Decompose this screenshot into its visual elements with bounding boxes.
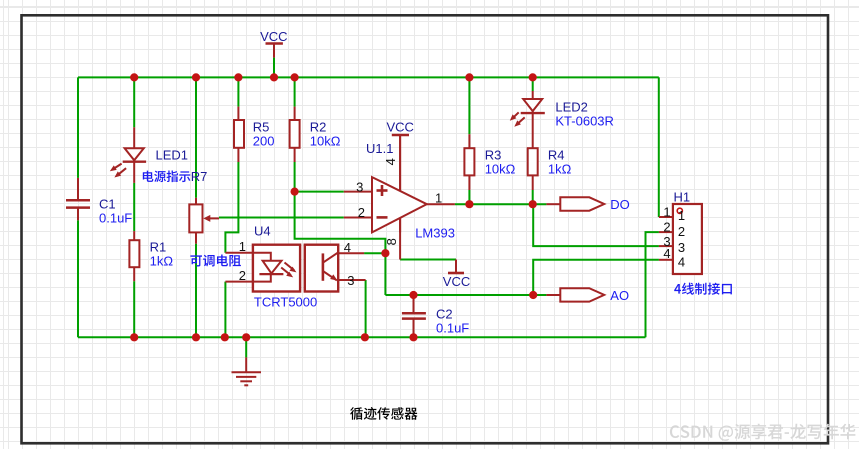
junction VCC rail at R2 — [291, 73, 299, 81]
junction node TCRT pin4 — [381, 249, 389, 257]
junction AO net at H1 branch — [529, 291, 537, 299]
svg-text:2: 2 — [678, 224, 685, 239]
wire R3 bottom — [468, 190, 470, 204]
wire R4 bottom — [532, 190, 534, 204]
svg-text:VCC: VCC — [260, 29, 287, 44]
comment ketiao dianzu — [190, 255, 241, 267]
wire bottom rail — [78, 336, 646, 338]
pin stub H1 pin1 — [659, 216, 673, 218]
watermark CSDN — [670, 424, 856, 441]
pin stub H1 pin4 — [659, 259, 673, 261]
LED LED1 — [110, 148, 188, 178]
svg-text:1: 1 — [435, 191, 442, 206]
power VCC mid bar (op-amp pin4) — [392, 134, 409, 137]
wire R7 bottom — [195, 244, 197, 338]
resistor R4 — [528, 148, 572, 177]
port DO — [560, 197, 630, 212]
ground symbol bars — [232, 372, 262, 385]
svg-text:VCC: VCC — [443, 274, 470, 289]
wire ground stem — [245, 337, 247, 357]
junction GND rail at ground symbol — [242, 333, 250, 341]
pin stub opamp pin8 — [399, 218, 401, 260]
svg-text:LM393: LM393 — [415, 225, 455, 240]
svg-text:1kΩ: 1kΩ — [548, 161, 572, 176]
pin stub ground — [245, 357, 247, 371]
wire TCRT pin3 down — [365, 280, 367, 337]
svg-text:H1: H1 — [674, 189, 691, 204]
svg-text:4: 4 — [383, 158, 398, 165]
pin stub C2 — [413, 296, 415, 313]
pin stub opamp pin2 — [344, 217, 372, 219]
svg-text:2: 2 — [358, 205, 365, 220]
junction VCC rail at R5 — [234, 73, 242, 81]
pin stub opamp pin4 — [399, 135, 401, 191]
svg-text:1: 1 — [678, 208, 685, 223]
comment 4xian jiekou — [674, 283, 732, 295]
svg-text:LED1: LED1 — [156, 148, 189, 163]
svg-text:3: 3 — [347, 273, 354, 288]
wire LED1 to R1 — [133, 183, 135, 231]
pin stub TCRT pin2 — [225, 281, 253, 283]
wire R2 bottom node — [295, 162, 386, 295]
svg-text:U1.1: U1.1 — [366, 141, 393, 156]
svg-text:R7: R7 — [191, 169, 208, 184]
wire node to opamp pin3 — [295, 191, 344, 193]
junction VCC rail at VCC stem — [270, 73, 278, 81]
svg-text:1kΩ: 1kΩ — [150, 253, 174, 268]
svg-text:DO: DO — [610, 197, 630, 212]
pin stub opamp out — [427, 203, 455, 205]
junction GND rail at R7 — [192, 333, 200, 341]
wire opamp pin8 to VCC — [400, 259, 456, 261]
pin stub opamp pin3 — [344, 191, 372, 193]
pin stub H1 pin3 — [659, 245, 673, 247]
svg-text:10kΩ: 10kΩ — [485, 161, 516, 176]
pin stub R2 — [294, 107, 296, 120]
wire R7 wiper to opamp pin2 — [219, 217, 344, 219]
svg-text:U4: U4 — [254, 223, 271, 238]
wire AO to H1 pin4 — [533, 260, 659, 295]
svg-text:TCRT5000: TCRT5000 — [254, 294, 317, 309]
resistor R5 — [234, 120, 275, 149]
pin stub R5 — [237, 107, 239, 120]
svg-text:10kΩ: 10kΩ — [310, 133, 341, 148]
junction VCC rail at LED1 — [130, 73, 138, 81]
wire R3 top — [468, 77, 470, 134]
wire AO horizontal — [385, 294, 546, 296]
comment 电源指示 and designator R7 — [143, 169, 208, 184]
pin stub LED2 R4 — [532, 91, 534, 148]
svg-text:4: 4 — [344, 240, 351, 255]
svg-text:VCC: VCC — [387, 120, 414, 135]
comment dianyuan zhishi — [143, 171, 191, 183]
svg-text:3: 3 — [356, 179, 363, 194]
wire top rail — [78, 76, 659, 78]
svg-text:AO: AO — [610, 288, 629, 303]
svg-text:8: 8 — [384, 238, 399, 245]
junction VCC rail at R3 — [465, 73, 473, 81]
port AO — [560, 288, 629, 303]
pin stub R3 — [468, 134, 470, 148]
resistor R3 — [464, 148, 515, 177]
svg-text:0.1uF: 0.1uF — [99, 210, 132, 225]
junction node R2 to opamp pin3 — [291, 188, 299, 196]
svg-text:KT-0603R: KT-0603R — [555, 113, 614, 128]
pin stub VCC top — [273, 44, 275, 58]
wire H1 pin1 drop — [658, 77, 660, 217]
junction AO net at C2 — [409, 291, 417, 299]
title xunji chuanganqi — [350, 407, 417, 420]
svg-text:2: 2 — [239, 268, 246, 283]
svg-text:200: 200 — [253, 133, 275, 148]
wire R7 top — [195, 77, 197, 197]
junction GND rail at TCRT pin3 — [361, 333, 369, 341]
potentiometer R7 body — [189, 204, 219, 232]
junction GND rail at R1 — [130, 333, 138, 341]
wire R5 top — [237, 77, 239, 106]
wire VCC top stem — [273, 58, 275, 78]
junction DO net at R3 — [465, 200, 473, 208]
svg-text:4: 4 — [678, 254, 685, 269]
pin stub H1 pin2 — [659, 231, 673, 233]
power VCC bottom bar (inverted) — [448, 272, 464, 275]
wire R5 bottom to TCRT pin1 — [225, 162, 238, 253]
wire LED2 top — [532, 77, 534, 91]
op-amp U1.1 — [356, 135, 455, 245]
svg-text:2: 2 — [663, 220, 670, 235]
wire H1 pin2 to ground rail — [646, 232, 659, 337]
pin stub C1 — [77, 178, 79, 200]
resistor R1 — [129, 240, 173, 269]
junction GND rail at C2 — [409, 333, 417, 341]
wire DO to H1 pin3 — [533, 204, 659, 246]
junction VCC rail at R4 — [529, 73, 537, 81]
optocoupler U4 TCRT5000 — [239, 223, 355, 309]
junction VCC rail at R7 — [192, 73, 200, 81]
wire TCRT pin4 to node — [364, 252, 385, 254]
svg-text:C1: C1 — [99, 196, 116, 211]
svg-text:0.1uF: 0.1uF — [436, 320, 469, 335]
wire TCRT pin2 down — [224, 282, 226, 338]
pin stub R7 — [195, 198, 197, 205]
wire opamp output — [455, 203, 547, 205]
wire LED1 branch upper — [133, 77, 135, 127]
pin stub LED1 — [133, 127, 135, 183]
capacitor C2 — [402, 307, 469, 336]
resistor R2 — [290, 120, 341, 149]
pin stub TCRT pin1 — [225, 252, 253, 254]
pin stub VCC bottom — [455, 260, 457, 273]
wire R1 bottom — [133, 281, 135, 337]
svg-text:1: 1 — [239, 239, 246, 254]
pin stub R1 — [133, 231, 135, 240]
pin stub AO arrow — [546, 294, 560, 296]
power VCC top bar — [266, 42, 283, 45]
connector H1 — [663, 189, 702, 274]
wire left edge with C1 gap — [77, 77, 79, 177]
pin stub DO arrow — [546, 203, 560, 205]
pin stub TCRT pin4 — [339, 252, 365, 254]
capacitor C1 — [66, 196, 132, 225]
svg-text:1: 1 — [663, 205, 670, 220]
wire R2 top — [294, 77, 296, 106]
junction DO net at R4 — [529, 200, 537, 208]
pin stub TCRT pin3 — [339, 279, 366, 281]
svg-text:4: 4 — [663, 246, 670, 261]
svg-text:3: 3 — [678, 240, 685, 255]
junction GND rail at TCRT pin2 — [221, 333, 229, 341]
LED LED2 — [510, 99, 614, 128]
